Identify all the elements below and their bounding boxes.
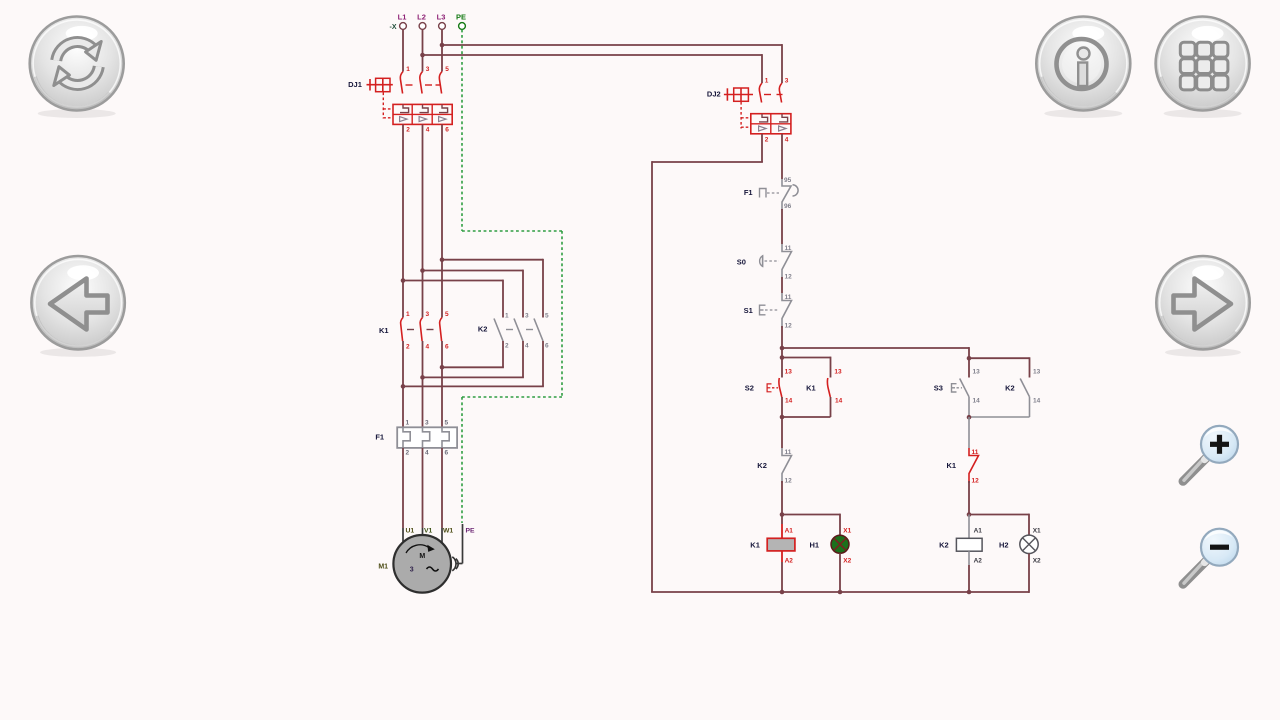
node junction right branch bottom [967,415,972,420]
node junction L1 to K2 pole 1 [401,278,406,283]
svg-text:5: 5 [445,66,449,73]
wire K2 pole 1 to L3 [502,341,504,367]
svg-text:F1: F1 [744,188,753,197]
svg-text:K2: K2 [757,461,767,470]
motor M1 PE terminal clamp [452,557,458,571]
breaker DJ2 mechanism dashed link [741,102,749,129]
node junction K2 pole1 L3 [440,365,445,370]
svg-text:A1: A1 [785,527,794,534]
breaker DJ2 pole contact 1 [759,78,768,144]
svg-text:13: 13 [785,369,793,376]
svg-text:U1: U1 [406,528,415,535]
svg-text:14: 14 [973,398,981,405]
svg-text:K2: K2 [478,325,488,334]
overload relay F1 box [397,427,457,448]
wire seal-in branch bottom [782,397,831,417]
svg-text:12: 12 [972,478,980,485]
svg-text:L1: L1 [398,13,407,22]
svg-text:K1: K1 [806,384,816,393]
wire coil K2 stub [968,515,970,539]
button grid menu [1156,17,1250,119]
lamp H1 run indicator [831,527,852,564]
wire phase 1 K1 to F1 [402,341,404,427]
breaker DJ1 pole contact 1 [400,66,410,134]
coil K1 [767,527,795,564]
wire W1 to motor [441,448,443,528]
svg-text:1: 1 [406,311,410,318]
svg-text:L2: L2 [417,13,426,22]
svg-text:F1: F1 [375,433,384,442]
breaker DJ2 linkage dashes [764,94,783,96]
svg-text:4: 4 [785,137,789,144]
svg-text:X2: X2 [843,558,851,565]
svg-text:6: 6 [445,344,449,351]
pushbutton S3 NO open [960,369,980,405]
svg-text:S2: S2 [745,384,754,393]
svg-text:S3: S3 [934,384,943,393]
svg-text:12: 12 [785,478,793,485]
breaker DJ2 trip unit box [751,114,791,134]
node PE terminal [456,13,466,30]
overload contact F1 actuator symbol [760,189,780,198]
wire seal-in branch top [782,357,831,378]
breaker DJ2 thermal element [779,114,788,122]
wire coil K1 to rail [781,551,783,592]
svg-text:96: 96 [784,203,792,210]
svg-text:5: 5 [445,311,449,318]
svg-text:W1: W1 [443,528,453,535]
breaker DJ1 trip unit box [393,104,452,124]
overload contact F1 95-96 [782,177,798,210]
wire right branch corner [968,347,970,358]
svg-text:14: 14 [785,398,793,405]
svg-text:M1: M1 [378,564,388,571]
breaker DJ1 thermal element [439,104,448,112]
breaker DJ1 magnetic element [419,117,426,122]
svg-text:PE: PE [456,13,466,22]
svg-text:V1: V1 [424,528,433,535]
pushbutton S2 start NO closed [779,369,793,405]
node L3 terminal [437,13,446,30]
breaker DJ2 magnetic element [779,126,786,131]
wire U1 to motor [402,448,404,528]
pushbutton S3 actuator [952,384,963,392]
svg-text:14: 14 [1033,398,1041,405]
node junction L2 control tap [420,53,425,58]
wire K2 pole 5 to L1 [542,341,544,386]
wire L1 to K2 pole 1 [403,280,503,282]
wire phase 3 DJ1 to K1 [441,124,443,317]
svg-text:4: 4 [426,344,430,351]
wire to K2 aux branch [969,357,1030,377]
svg-text:5: 5 [545,313,549,320]
breaker DJ1 thermal element [400,104,409,112]
wire S2 top stub [781,358,783,378]
pushbutton S0 emergency stop NC [782,244,792,281]
node junction H1 rail [838,590,843,595]
svg-text:2: 2 [765,137,769,144]
svg-text:11: 11 [785,245,792,252]
node L2 terminal [417,13,426,30]
svg-text:K1: K1 [947,461,957,470]
svg-text:H2: H2 [999,541,1009,550]
svg-text:6: 6 [445,127,449,134]
svg-text:A2: A2 [785,558,794,565]
node junction L3 control tap [440,43,445,48]
wire F1 to S0 [781,209,783,244]
pushbutton S0 mushroom actuator [760,255,779,267]
wire S1 to junction [781,326,783,359]
svg-text:A1: A1 [974,527,983,534]
contactor K1 linkage dashes [407,329,434,331]
wire L2 to K2 pole 3 [423,270,524,272]
wire V1 to motor [422,448,424,528]
svg-text:DJ2: DJ2 [707,90,721,99]
node junction K1 coil [780,512,785,517]
breaker DJ2 pole contact 3 [779,78,788,144]
svg-text:S0: S0 [737,257,746,266]
wire L2 vertical to DJ1 [422,30,424,72]
pushbutton S1 NC [782,293,792,330]
breaker DJ1 thermal element [420,104,429,112]
svg-text:S1: S1 [744,306,753,315]
svg-text:X1: X1 [1033,527,1041,534]
auxiliary contact K2 NO open [1020,369,1040,405]
svg-text:5: 5 [445,420,449,427]
node junction L3 to K2 pole 5 [440,257,445,262]
breaker DJ1 operator mechanism [367,78,393,91]
wire motor PE [457,524,463,564]
node junction seal-in branch [780,355,785,360]
svg-text:2: 2 [406,450,410,457]
svg-text:1: 1 [406,66,410,73]
contactor K1 power contact pole 3 [420,311,429,351]
node junction L2 to K2 pole 3 [420,268,425,273]
wire S3 top stub [968,358,970,377]
contactor K2 power contact pole 3 [514,313,529,350]
svg-text:95: 95 [784,177,792,184]
button info [1036,17,1130,119]
node junction K2 pole3 L2 [420,375,425,380]
wire phase 2 K1 to F1 [422,341,424,427]
button refresh [30,17,124,119]
pushbutton S2 actuator [767,384,778,392]
svg-text:11: 11 [785,294,792,301]
wire lamp H1 to rail [839,553,841,592]
svg-text:PE: PE [466,528,476,535]
pushbutton S1 actuator [760,305,780,315]
node junction seal-in bottom [780,415,785,420]
coil K2 [956,527,982,564]
contactor K2 power contact pole 1 [494,313,509,350]
svg-text:11: 11 [785,449,792,456]
wire bottom rail [651,591,1029,593]
wire K2 pole 3 to L2 [522,341,524,377]
breaker DJ2 magnetic element [759,126,766,131]
svg-text:3: 3 [426,311,430,318]
svg-text:4: 4 [425,450,429,457]
node junction start branch [780,346,785,351]
wire junction to K1 NC [968,417,970,448]
wire S0 to S1 [781,277,783,293]
svg-text:12: 12 [785,323,793,330]
interlock contact K1 NC open [969,448,979,485]
contactor K2 linkage dashes [506,329,533,331]
wire K2 aux bottom [969,397,1030,417]
contactor K1 power contact pole 5 [440,311,449,351]
svg-text:3: 3 [785,78,789,85]
svg-text:X2: X2 [1033,558,1041,565]
svg-text:K1: K1 [750,541,760,550]
button zoom in magnifier [1183,426,1238,482]
auxiliary contact K1 NO closed [827,369,842,405]
motor M1 [393,535,451,593]
breaker DJ1 mechanism dashed link [383,93,392,119]
svg-text:2: 2 [505,343,509,350]
wire phase 3 K1 to F1 [441,341,443,427]
svg-text:M: M [419,553,425,560]
breaker DJ1 linkage dashes [406,84,441,86]
svg-text:X1: X1 [843,527,851,534]
button next page [1156,256,1249,357]
overload relay F1 heater element 5 [442,420,449,457]
svg-text:13: 13 [973,369,981,376]
button zoom out magnifier [1183,529,1238,585]
breaker DJ2 operator mechanism [724,88,753,101]
wire K1 NC to coil junction [968,481,970,515]
svg-text:6: 6 [545,343,549,350]
svg-text:1: 1 [406,420,410,427]
svg-text:2: 2 [406,344,410,351]
svg-text:L3: L3 [437,13,446,22]
svg-text:12: 12 [785,274,793,281]
svg-text:A2: A2 [974,558,983,565]
interlock contact K2 NC [782,448,792,485]
node junction K1 coil rail [780,590,785,595]
svg-text:4: 4 [525,343,529,350]
svg-text:K2: K2 [1005,384,1015,393]
button previous page [31,256,124,357]
wire control feed 2 horizontal [423,54,763,56]
wire to H2 branch [969,514,1029,536]
node junction S3 branch [967,356,972,361]
wire control feed 1 horizontal [442,44,782,46]
svg-text:3: 3 [425,420,429,427]
svg-text:3: 3 [410,567,414,574]
wire K2 NC to coil junction [781,481,783,515]
contactor K1 power contact pole 1 [401,311,410,351]
svg-text:2: 2 [406,127,410,134]
motor terminal labels [406,528,476,535]
overload relay F1 heater element 1 [403,420,410,457]
svg-text:11: 11 [972,449,979,456]
node junction K2 pole5 L1 [401,384,406,389]
svg-text:-X: -X [390,24,397,31]
node L1 terminal [398,13,407,30]
wire junction to K2 NC [781,416,783,448]
wire DJ2 pole 4 down to F1 [781,134,783,179]
wire lamp H2 to rail [1028,554,1030,593]
wire coil K2 to rail [968,551,970,592]
svg-text:K1: K1 [379,326,389,335]
wire phase 1 DJ1 to K1 [402,124,404,317]
wire to H1 branch [782,514,840,536]
svg-text:3: 3 [426,66,430,73]
wire L1 vertical to DJ1 [402,30,404,72]
svg-text:4: 4 [426,127,430,134]
node junction K2 coil rail [967,590,972,595]
wire DJ2 pole 2 to left rail [652,134,763,592]
breaker DJ1 pole contact 3 [420,66,430,134]
svg-text:14: 14 [835,398,843,405]
svg-text:H1: H1 [810,541,820,550]
breaker DJ2 thermal element [759,114,768,122]
svg-text:DJ1: DJ1 [348,80,362,89]
wire PE earth dashed [462,30,562,523]
lamp H2 indicator [1020,527,1041,564]
svg-text:3: 3 [525,313,529,320]
breaker DJ1 magnetic element [439,117,446,122]
wire L3 vertical to DJ1 [441,30,443,72]
svg-text:13: 13 [1033,369,1041,376]
svg-text:6: 6 [445,450,449,457]
svg-text:K2: K2 [939,541,949,550]
wire L3 to K2 pole 5 [442,259,543,261]
node junction K2 coil [967,512,972,517]
wire coil K1 stub [781,515,783,539]
breaker DJ1 magnetic element [400,117,407,122]
contactor K2 power contact pole 5 [534,313,549,350]
wire phase 2 DJ1 to K1 [422,124,424,317]
breaker DJ1 pole contact 5 [439,66,449,134]
wire to right branch [782,347,969,349]
svg-text:1: 1 [505,313,509,320]
svg-text:1: 1 [765,78,769,85]
overload relay F1 heater element 3 [423,420,430,457]
svg-text:13: 13 [834,369,842,376]
